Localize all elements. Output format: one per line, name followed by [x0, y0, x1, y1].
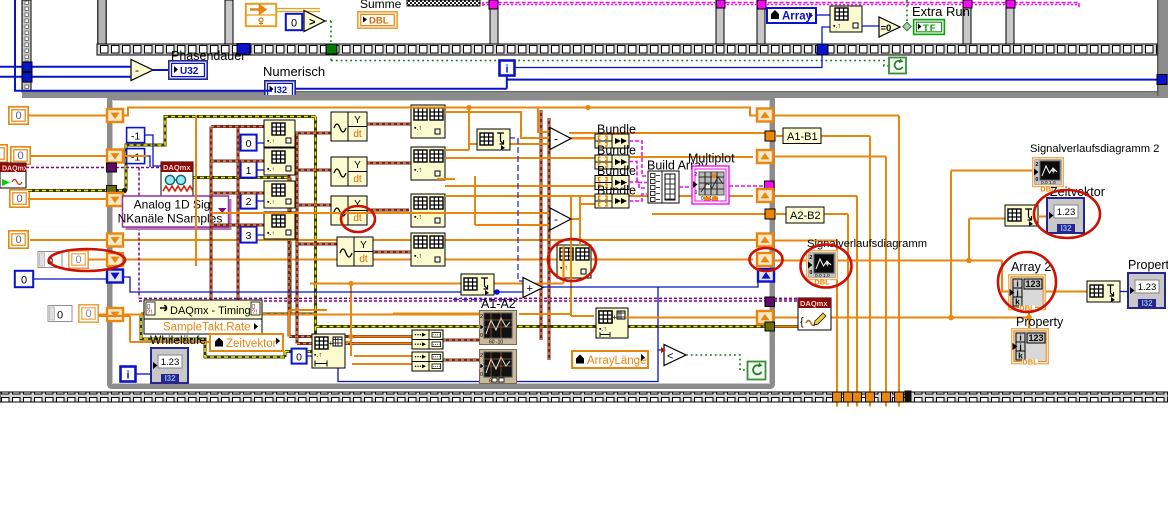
svg-text:-: - [554, 212, 558, 226]
svg-text:Zeitvektor: Zeitvektor [226, 338, 277, 350]
svg-text:3: 3 [246, 230, 252, 242]
svg-text:<: < [667, 351, 673, 363]
svg-text:0: 0 [246, 138, 252, 150]
svg-text:-1: -1 [131, 131, 140, 143]
svg-text:+: + [527, 283, 533, 295]
svg-text:DAQmx: DAQmx [163, 163, 191, 172]
svg-text:1: 1 [246, 165, 252, 177]
svg-text:Property: Property [1128, 258, 1168, 272]
svg-text:-: - [554, 132, 558, 146]
svg-text:A2-B2: A2-B2 [790, 210, 821, 222]
svg-text:SampleTakt.Rate: SampleTakt.Rate [163, 322, 251, 334]
svg-text:DAQmx - Timing: DAQmx - Timing [170, 305, 251, 317]
svg-text:Extra Run: Extra Run [912, 4, 970, 19]
svg-text:0: 0 [291, 18, 297, 30]
svg-text:2: 2 [695, 172, 698, 178]
svg-text:2: 2 [246, 196, 252, 208]
svg-text:0: 0 [57, 310, 63, 322]
svg-text:i: i [505, 64, 508, 76]
svg-text:Signalverlaufsdiagramm 2: Signalverlaufsdiagramm 2 [1030, 143, 1159, 155]
svg-text:i: i [126, 370, 129, 382]
svg-text:Property: Property [1016, 315, 1064, 329]
svg-text:A1-B1: A1-B1 [787, 131, 818, 143]
svg-text:Numerisch: Numerisch [263, 64, 325, 79]
svg-text:Analog 1D Sig: Analog 1D Sig [134, 198, 211, 212]
svg-text:-: - [135, 63, 139, 77]
svg-text:{: { [800, 316, 804, 328]
svg-text:Multiplot: Multiplot [688, 152, 735, 166]
svg-text:=0: =0 [881, 23, 892, 34]
svg-text:DAQmx: DAQmx [800, 299, 828, 308]
svg-text:▪.↑: ▪.↑ [314, 352, 322, 359]
svg-text:Summe: Summe [360, 0, 402, 11]
svg-text:NKanäle NSamples: NKanäle NSamples [118, 212, 223, 226]
svg-text:0: 0 [21, 275, 27, 287]
svg-text:DBL: DBL [369, 16, 389, 27]
svg-text:>: > [309, 17, 315, 29]
svg-text:Array 2: Array 2 [1011, 260, 1051, 274]
svg-text:+: + [612, 313, 617, 322]
svg-text:▪.↑: ▪.↑ [599, 326, 607, 333]
svg-text:▪.↑: ▪.↑ [833, 23, 841, 30]
svg-text:Whileläufe: Whileläufe [150, 333, 206, 347]
svg-text:TF: TF [923, 23, 937, 34]
svg-text:Array: Array [782, 11, 813, 23]
svg-text:I32: I32 [274, 85, 287, 96]
svg-text:?!: ?! [252, 310, 257, 316]
svg-text:0: 0 [296, 352, 302, 364]
svg-text:ArrayLänge: ArrayLänge [587, 355, 646, 367]
svg-text:U32: U32 [180, 66, 199, 77]
svg-text:A1-A2: A1-A2 [481, 297, 516, 311]
svg-text:0: 0 [695, 190, 698, 196]
svg-text:DAQmx: DAQmx [2, 166, 28, 173]
svg-text:-1: -1 [131, 152, 140, 164]
svg-text:?!: ?! [147, 310, 152, 316]
